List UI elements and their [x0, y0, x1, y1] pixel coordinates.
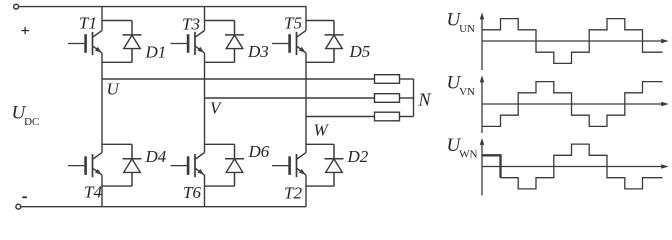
- waveform UWN: [501, 144, 663, 189]
- waveform UWN bold first step: [482, 155, 501, 177]
- transistor T3: [171, 43, 187, 45]
- wire resistor to N bus: [400, 78, 414, 80]
- label -: [22, 196, 27, 198]
- wire cell T1: [102, 20, 132, 22]
- transistor T5: [272, 43, 288, 45]
- transistor T6: [171, 165, 187, 167]
- wire N bus: [413, 79, 415, 117]
- wire cell T5: [306, 61, 334, 63]
- resistor load V: [375, 94, 400, 103]
- diode D4: [123, 144, 142, 186]
- wire leg 1 upper vertical: [101, 6, 103, 31]
- label +: [21, 27, 29, 35]
- resistor load W: [375, 112, 400, 121]
- svg-text:T2: T2: [284, 184, 302, 203]
- svg-text:D4: D4: [145, 147, 167, 166]
- svg-text:T5: T5: [284, 14, 302, 33]
- svg-text:WN: WN: [459, 149, 477, 161]
- wire cell T6: [205, 143, 235, 145]
- wire leg 2 upper vertical: [204, 6, 206, 31]
- waveform UVN: [482, 82, 663, 127]
- svg-text:DC: DC: [24, 116, 39, 128]
- wire cell T3: [205, 20, 235, 22]
- wire leg 3 middle vertical: [305, 53, 307, 153]
- wire leg 3 upper vertical: [305, 6, 307, 31]
- waveform UUN: [482, 19, 663, 64]
- diode D2: [325, 144, 344, 186]
- svg-text:T4: T4: [84, 183, 102, 202]
- wire cell T6: [205, 185, 235, 187]
- axis WN vertical: [481, 145, 483, 196]
- wire leg 2 lower vertical: [204, 175, 206, 207]
- wire cell T3: [205, 61, 235, 63]
- resistor load U: [375, 75, 400, 84]
- wire top DC rail: [19, 6, 306, 8]
- wire cell T4: [102, 185, 132, 187]
- wire resistor to N bus: [400, 97, 414, 99]
- wire leg 1 middle vertical: [101, 53, 103, 153]
- svg-text:V: V: [210, 99, 223, 118]
- terminal + (positive input): [14, 4, 19, 9]
- wire cell T5: [306, 20, 334, 22]
- transistor T2: [272, 165, 288, 167]
- axis WN horizontal: [482, 166, 666, 168]
- svg-text:UN: UN: [459, 23, 475, 35]
- axis UN horizontal: [482, 40, 666, 42]
- axis VN horizontal: [482, 103, 666, 105]
- terminal - (negative input): [16, 204, 21, 209]
- wire resistor to N bus: [400, 116, 414, 118]
- svg-text:VN: VN: [459, 86, 475, 98]
- wire cell T1: [102, 61, 132, 63]
- svg-text:D3: D3: [247, 42, 269, 61]
- svg-text:N: N: [418, 90, 432, 110]
- wire bottom DC rail: [21, 206, 306, 208]
- svg-text:D6: D6: [248, 142, 270, 161]
- axis VN vertical: [481, 82, 483, 133]
- axis UN vertical: [481, 19, 483, 70]
- svg-text:T1: T1: [79, 14, 97, 33]
- diode D5: [325, 21, 344, 63]
- svg-text:T3: T3: [182, 15, 200, 34]
- diode D3: [225, 21, 244, 63]
- wire leg 1 lower vertical: [101, 175, 103, 207]
- diode D6: [225, 144, 244, 186]
- svg-text:U: U: [107, 80, 121, 99]
- transistor T4: [68, 165, 84, 167]
- wire cell T2: [306, 143, 334, 145]
- wire cell T4: [102, 143, 132, 145]
- svg-text:D1: D1: [145, 43, 167, 62]
- wire phase V: [205, 97, 375, 99]
- wire phase W: [306, 116, 375, 118]
- svg-text:T6: T6: [183, 183, 201, 202]
- wire phase U: [102, 78, 375, 80]
- wire cell T2: [306, 185, 334, 187]
- svg-text:D2: D2: [347, 147, 369, 166]
- wire leg 3 lower vertical: [305, 175, 307, 207]
- transistor T1: [68, 43, 84, 45]
- svg-text:W: W: [314, 120, 330, 139]
- wire leg 2 middle vertical: [204, 53, 206, 153]
- diode D1: [123, 21, 142, 63]
- svg-text:D5: D5: [349, 42, 371, 61]
